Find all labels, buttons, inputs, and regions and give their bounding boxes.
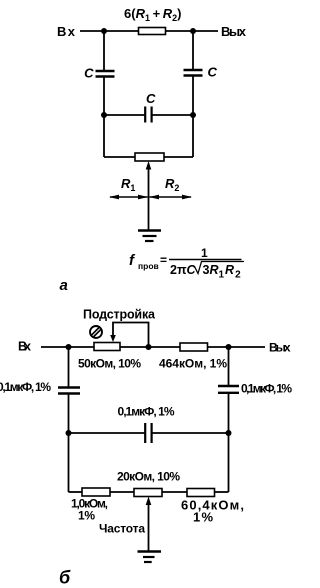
- junction left top: [101, 28, 107, 34]
- wire right branch b lower: [228, 394, 230, 493]
- svg-text:=: =: [160, 253, 167, 267]
- wire input to resistor: [80, 30, 138, 32]
- resistor 1.0k body: [82, 488, 110, 496]
- wire input b: [41, 346, 94, 348]
- wire middle b left: [69, 432, 146, 434]
- screwdriver adjust symbol: [90, 326, 102, 338]
- wire middle right: [152, 114, 193, 116]
- wire left branch upper: [103, 31, 105, 70]
- wire pot to resistor: [120, 346, 180, 348]
- wire bottom b segment 3: [162, 491, 187, 493]
- dimension arrow R2: [150, 196, 192, 198]
- junction middle left: [101, 112, 107, 118]
- capacitor 0.1uF left: [58, 386, 80, 388]
- junction right top: [190, 28, 196, 34]
- wire bottom b segment 2: [110, 491, 134, 493]
- junction b top-left: [66, 344, 72, 350]
- wire left branch b upper: [68, 347, 70, 387]
- wire bottom left segment: [104, 156, 135, 158]
- resistor 6(R1+R2): [139, 28, 166, 35]
- wire bottom b segment 4: [215, 491, 229, 493]
- svg-text:Частота: Частота: [99, 522, 145, 536]
- svg-text:C: C: [84, 66, 94, 81]
- svg-text:50кОм, 10%: 50кОм, 10%: [78, 357, 141, 371]
- potentiometer 20k body: [134, 489, 162, 497]
- svg-text:пров: пров: [138, 261, 159, 271]
- dimension arrow R1: [110, 196, 148, 198]
- svg-text:1%: 1%: [78, 509, 95, 523]
- capacitor C left: [96, 70, 115, 72]
- potentiometer 50k body: [94, 343, 120, 351]
- potentiometer R1R2 body: [135, 153, 164, 161]
- wire middle b right: [152, 432, 229, 434]
- svg-text:C: C: [146, 91, 156, 106]
- wire resistor to output: [166, 30, 219, 32]
- capacitor 0.1uF right: [218, 385, 239, 387]
- svg-text:20кОм, 10%: 20кОм, 10%: [117, 470, 180, 484]
- capacitor C right: [184, 69, 203, 71]
- resistor 60.4k body: [187, 489, 215, 497]
- svg-text:0,1мкФ, 1%: 0,1мкФ, 1%: [118, 405, 175, 419]
- svg-text:Подстройка: Подстройка: [83, 308, 156, 322]
- wire left branch b lower: [68, 394, 70, 492]
- svg-text:0,1мкФ, 1%: 0,1мкФ, 1%: [0, 380, 51, 394]
- wire bottom right segment: [164, 156, 193, 158]
- formula f_prov: [129, 246, 244, 281]
- junction b middle-right: [226, 430, 232, 436]
- svg-text:C: C: [208, 65, 218, 80]
- svg-text:Вых: Вых: [221, 24, 247, 39]
- svg-text:0,1мкФ, 1%: 0,1мкФ, 1%: [241, 382, 292, 396]
- wire left branch lower: [103, 77, 105, 157]
- wire middle left: [104, 114, 145, 116]
- junction middle right: [190, 112, 196, 118]
- svg-text:1%: 1%: [193, 510, 213, 525]
- svg-text:б: б: [59, 568, 71, 588]
- capacitor 0.1uF middle: [144, 423, 146, 443]
- wiper loop of 50k pot: [113, 323, 149, 348]
- resistor 464k body: [180, 343, 208, 351]
- capacitor C middle: [144, 107, 146, 123]
- junction b wiper: [146, 344, 152, 350]
- wiper arrow of potentiometer: [148, 168, 150, 230]
- wiper arrow of 20k pot: [148, 504, 150, 551]
- wire right branch upper: [192, 31, 194, 69]
- ground a: [138, 229, 161, 231]
- svg-text:а: а: [60, 277, 68, 294]
- junction b top-right: [226, 344, 232, 350]
- svg-text:Вых: Вых: [269, 341, 291, 355]
- wire right branch b upper: [228, 347, 230, 385]
- junction b middle-left: [66, 430, 72, 436]
- svg-text:Вх: Вх: [18, 340, 31, 354]
- wire right branch lower: [192, 76, 194, 157]
- ground b: [138, 550, 162, 552]
- wire resistor to output b: [208, 346, 266, 348]
- wire bottom b segment 1: [69, 491, 83, 493]
- svg-text:1: 1: [201, 246, 208, 260]
- svg-text:464кОм, 1%: 464кОм, 1%: [159, 357, 227, 371]
- svg-text:2πC: 2πC: [170, 263, 197, 277]
